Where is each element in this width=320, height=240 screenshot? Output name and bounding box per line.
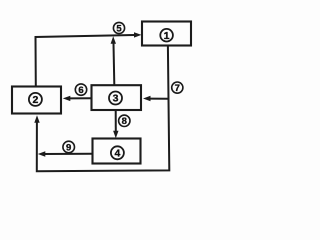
svg-text:8: 8 xyxy=(122,116,127,127)
svg-text:2: 2 xyxy=(32,94,38,106)
svg-text:9: 9 xyxy=(66,142,71,153)
svg-text:1: 1 xyxy=(164,30,170,42)
svg-text:6: 6 xyxy=(78,85,83,96)
svg-text:4: 4 xyxy=(114,147,120,159)
svg-text:3: 3 xyxy=(113,93,119,105)
svg-text:7: 7 xyxy=(175,83,180,94)
svg-text:5: 5 xyxy=(116,23,122,34)
